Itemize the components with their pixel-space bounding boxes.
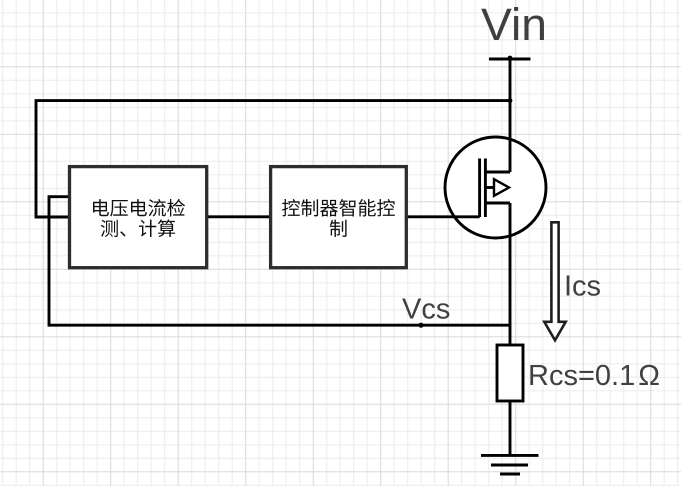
U1 label line2 测、计算 <box>101 219 175 237</box>
block U1 voltage/current detect & compute <box>70 167 207 268</box>
transistor Q1 N-MOSFET body <box>445 137 546 238</box>
ground bar 1 <box>481 454 539 457</box>
resistor Rcs <box>497 345 523 401</box>
Q1 channel arrow <box>494 179 509 196</box>
wire U1 to Vcs rail <box>49 197 510 326</box>
Q1 body stub <box>485 186 494 189</box>
Q1 drain stub <box>485 171 510 174</box>
wire U1 to U2 <box>207 215 271 218</box>
wire U2 to Q1 gate <box>406 215 479 218</box>
ground bar 2 <box>491 464 528 467</box>
Vin terminal bar <box>489 58 531 61</box>
wire Rcs to ground <box>509 401 512 455</box>
Q1 source stub <box>485 202 510 205</box>
svg-text:Vin: Vin <box>481 0 547 50</box>
U2 label line1 控制器智能控 <box>282 199 395 217</box>
svg-text:Vcs: Vcs <box>402 294 450 326</box>
Q1 channel bar <box>484 159 487 218</box>
junction dot on drain wire <box>508 98 513 103</box>
wire top feedback rail <box>36 101 510 217</box>
U2 label line2 制 <box>330 220 347 237</box>
junction dot at Vin terminal <box>508 56 513 61</box>
svg-text:Rcs=0.1Ω: Rcs=0.1Ω <box>528 360 660 392</box>
U1 label line1 电压电流检 <box>93 199 185 217</box>
current arrow Ics <box>544 222 565 340</box>
wire Q1 source to Rcs <box>509 203 512 345</box>
wire Vin to Q1 drain <box>509 59 512 172</box>
junction dot node Vcs <box>418 323 423 328</box>
svg-text:Ics: Ics <box>564 271 601 303</box>
Q1 gate bar <box>478 159 481 218</box>
ground bar 3 <box>500 473 520 476</box>
block U2 controller intelligent control <box>271 167 407 268</box>
